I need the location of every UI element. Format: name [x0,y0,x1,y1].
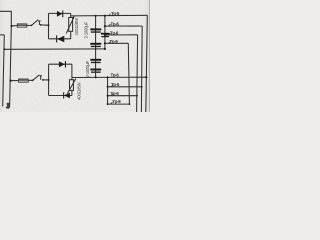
svg-text:400Ω/8W: 400Ω/8W [76,82,81,100]
svg-text:2-1000µF: 2-1000µF [84,21,89,38]
svg-text:Tp-6: Tp-6 [111,91,120,96]
svg-text:Tp-6: Tp-6 [111,22,120,27]
svg-text:2-1000µF: 2-1000µF [85,60,90,77]
svg-text:Tp-6: Tp-6 [111,82,120,87]
svg-text:Tp-6: Tp-6 [110,31,119,36]
svg-text:400Ω/8W: 400Ω/8W [74,18,79,36]
svg-text:Tp-6: Tp-6 [111,73,120,78]
svg-text:Tp-5: Tp-5 [111,11,120,16]
svg-text:Tp-6: Tp-6 [110,39,119,44]
svg-text:Tp-8: Tp-8 [112,99,121,104]
